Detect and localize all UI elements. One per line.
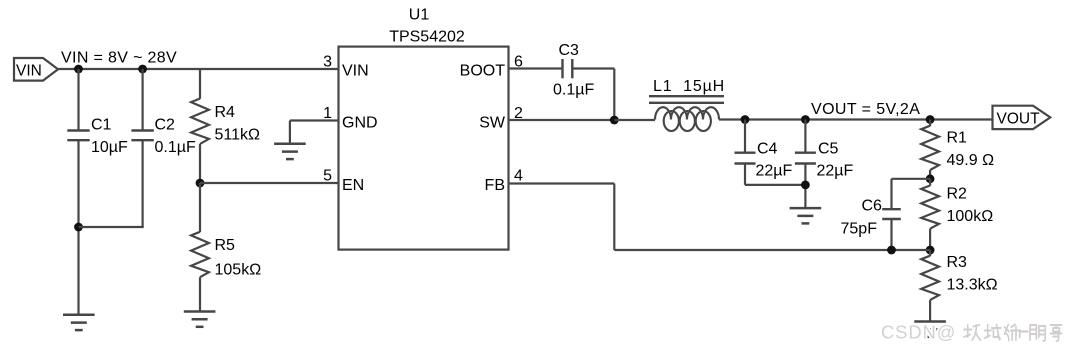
node VIN/C1 junction xyxy=(74,65,83,74)
node R2/R3 junction xyxy=(926,246,935,255)
node R1/R2 junction xyxy=(926,174,935,183)
svg-text:R4: R4 xyxy=(215,104,236,121)
pin 3 VIN xyxy=(323,53,369,79)
wire SW xyxy=(509,119,615,121)
wire VIN rail xyxy=(58,68,339,70)
svg-text:49.9 Ω: 49.9 Ω xyxy=(947,152,995,169)
node C4/C5 bottom junction xyxy=(801,181,810,190)
wire C1-C2 bottom xyxy=(79,226,144,228)
svg-text:4: 4 xyxy=(514,168,523,185)
capacitor C3 0.1µF xyxy=(553,42,594,99)
resistor R3 13.3k xyxy=(921,250,997,322)
svg-text:VIN = 8V ~ 28V: VIN = 8V ~ 28V xyxy=(61,50,177,67)
svg-text:EN: EN xyxy=(342,177,364,194)
node SW junction xyxy=(610,116,619,125)
svg-text:5: 5 xyxy=(323,168,332,185)
pin 6 BOOT xyxy=(460,53,523,79)
wire FB xyxy=(509,184,931,251)
svg-text:22µF: 22µF xyxy=(817,163,854,180)
resistor R1 49.9 xyxy=(921,120,994,179)
svg-text:0.1µF: 0.1µF xyxy=(155,139,196,156)
node C1/C2 bottom junction xyxy=(74,223,83,232)
resistor R5 105k xyxy=(191,183,261,312)
inductor L1 15µH xyxy=(649,78,725,131)
svg-text:C3: C3 xyxy=(559,42,580,59)
net flag VOUT xyxy=(993,106,1051,129)
svg-text:L1 15µH: L1 15µH xyxy=(653,78,725,95)
svg-text:VIN: VIN xyxy=(16,62,42,79)
ground (C5) xyxy=(790,208,822,223)
svg-text:FB: FB xyxy=(485,177,505,194)
svg-text:R3: R3 xyxy=(947,254,968,271)
wire EN xyxy=(200,182,339,184)
svg-text:13.3kΩ: 13.3kΩ xyxy=(947,277,998,294)
svg-text:1: 1 xyxy=(323,105,332,122)
svg-text:511kΩ: 511kΩ xyxy=(215,127,261,144)
svg-text:VOUT = 5V,2A: VOUT = 5V,2A xyxy=(811,101,920,118)
svg-text:C2: C2 xyxy=(155,117,176,134)
ground (R5) xyxy=(184,312,216,327)
capacitor C4 22µF xyxy=(735,120,806,185)
pin 1 GND xyxy=(323,105,377,132)
node FB/C6 junction xyxy=(887,246,896,255)
node C5 junction xyxy=(801,115,810,124)
capacitor C1 10µF xyxy=(67,69,128,315)
resistor R2 100k xyxy=(921,179,993,250)
svg-text:CSDN@: CSDN@ xyxy=(881,322,956,343)
pin 2 SW xyxy=(479,105,523,132)
watermark 攻城狮-鹏哥 xyxy=(964,325,1062,342)
svg-text:C1: C1 xyxy=(91,117,112,134)
svg-text:GND: GND xyxy=(342,115,378,132)
svg-text:10µF: 10µF xyxy=(91,139,128,156)
svg-text:VIN: VIN xyxy=(342,63,369,80)
wire SW to L1 xyxy=(614,119,655,121)
wire VOUT rail xyxy=(719,118,993,120)
svg-text:U1: U1 xyxy=(409,7,430,24)
pin 4 FB xyxy=(485,168,523,195)
resistor R4 511k xyxy=(191,69,260,183)
svg-text:C6: C6 xyxy=(862,198,883,215)
ground (input) xyxy=(63,315,95,330)
svg-text:3: 3 xyxy=(323,53,332,70)
node EN junction xyxy=(196,179,205,188)
pin 5 EN xyxy=(323,168,364,195)
svg-text:22µF: 22µF xyxy=(756,163,793,180)
svg-text:0.1µF: 0.1µF xyxy=(553,82,594,99)
svg-text:SW: SW xyxy=(479,115,506,132)
wire BOOT xyxy=(509,67,563,69)
capacitor C2 0.1µF xyxy=(131,69,196,227)
ground (R3) xyxy=(914,322,946,337)
op-amp/IC U1 TPS54202 xyxy=(339,7,509,250)
node VIN/C2 junction xyxy=(138,65,147,74)
capacitor C6 75pF xyxy=(841,179,931,250)
svg-text:C4: C4 xyxy=(757,141,778,158)
svg-text:75pF: 75pF xyxy=(841,221,878,238)
svg-text:BOOT: BOOT xyxy=(460,63,506,80)
svg-text:C5: C5 xyxy=(818,141,839,158)
node C4 junction xyxy=(741,115,750,124)
ground (IC GND) xyxy=(274,144,306,159)
svg-text:105kΩ: 105kΩ xyxy=(215,262,262,279)
svg-text:VOUT: VOUT xyxy=(997,110,1041,127)
svg-text:R2: R2 xyxy=(947,186,968,203)
wire C3 to SW node xyxy=(572,69,614,121)
svg-text:TPS54202: TPS54202 xyxy=(389,29,465,46)
wire GND pin xyxy=(290,121,339,144)
node R1 junction xyxy=(926,115,935,124)
svg-text:R1: R1 xyxy=(947,130,968,147)
net flag VIN xyxy=(14,58,58,81)
svg-text:100kΩ: 100kΩ xyxy=(947,208,994,225)
svg-text:R5: R5 xyxy=(215,237,236,254)
capacitor C5 22µF xyxy=(795,120,854,209)
